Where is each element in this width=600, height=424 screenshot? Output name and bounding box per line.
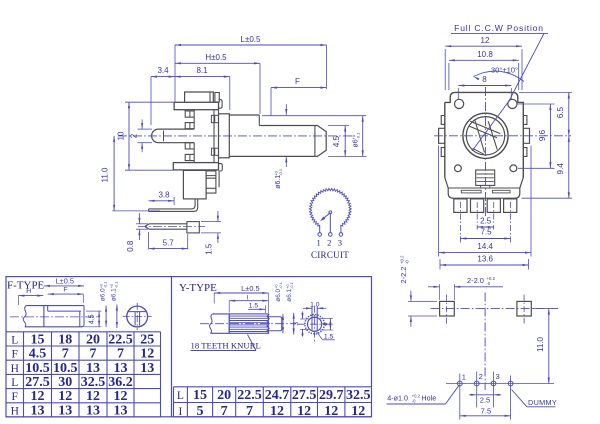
F dim Ø6.0 [105,306,107,327]
svg-text:-0.1: -0.1 [278,168,283,176]
svg-text:ø6.1: ø6.1 [111,288,118,301]
svg-text:10.5: 10.5 [53,361,78,376]
svg-text:F: F [295,77,300,86]
svg-text:2-2.0: 2-2.0 [467,276,484,285]
dim 1.5 pin [201,221,221,223]
dim 9.6 [517,103,555,105]
pcb: pin holes [446,383,554,385]
svg-text:7: 7 [246,404,253,419]
svg-text:-0.1: -0.1 [355,132,360,140]
pcb dim 2.5 holes [469,394,477,396]
pcb dim 7.5 holes [459,394,461,420]
svg-text:-0.1: -0.1 [103,282,107,288]
svg-text:3.4: 3.4 [157,66,169,75]
svg-text:2: 2 [327,238,331,248]
svg-text:2-2.2: 2-2.2 [399,267,408,284]
svg-text:30: 30 [58,375,72,390]
svg-text:9.6: 9.6 [538,129,547,141]
svg-text:L: L [11,334,18,346]
svg-text:13: 13 [86,361,100,376]
svg-text:32.5: 32.5 [346,388,371,403]
Y dim Ø6.0 [282,314,284,333]
svg-text:14.4: 14.4 [477,242,493,251]
svg-text:15: 15 [31,332,45,347]
dim 2.5 terminals [477,226,494,228]
svg-text:6.5: 6.5 [556,106,565,118]
front view: wiper detail [476,170,495,188]
svg-text:5.7: 5.7 [163,239,175,248]
svg-text:-0.1: -0.1 [114,282,118,288]
svg-text:13: 13 [86,403,100,418]
Y-TYPE table [174,387,372,417]
svg-text:7: 7 [117,347,124,362]
svg-text:25: 25 [140,332,154,347]
dim 10 [125,101,174,103]
front view: body outline [445,92,524,198]
svg-text:-0: -0 [487,281,491,286]
svg-text:9.4: 9.4 [556,163,565,175]
svg-text:4.5: 4.5 [89,314,96,324]
svg-text:I: I [179,406,183,418]
svg-text:24.7: 24.7 [265,388,290,403]
circuit symbol: legs and wiper [319,226,321,233]
svg-text:13.6: 13.6 [477,255,493,264]
side view: lower terminal block [183,170,219,199]
svg-text:12: 12 [140,347,154,362]
pcb dim 11.0 [533,308,554,310]
circuit symbol: terminal circles [318,233,322,237]
svg-text:1: 1 [317,238,321,248]
svg-text:F: F [12,349,18,361]
side view: PC pin detail [145,222,199,233]
front view: mounting holes [455,99,464,108]
svg-text:32.5: 32.5 [81,375,106,390]
svg-text:11.0: 11.0 [536,336,545,352]
dim 6.5 [519,91,572,93]
svg-text:F: F [12,391,18,403]
dim 10.8 [448,63,450,90]
front view: terminals [454,199,517,213]
svg-text:22.5: 22.5 [108,332,133,347]
side view: potentiometer body [173,92,222,171]
svg-text:12: 12 [297,404,311,419]
svg-text:4-ø1.0: 4-ø1.0 [387,393,408,402]
svg-text:CIRCUIT: CIRCUIT [311,250,349,260]
Y-type end view [298,306,333,342]
dim L±0.5 [174,45,176,102]
svg-text:36.2: 36.2 [108,375,133,390]
side view: centre line [118,135,352,137]
svg-text:3: 3 [495,372,499,381]
F-type end view [123,303,152,330]
svg-text:Full C.C.W Position: Full C.C.W Position [454,23,544,33]
svg-text:10.8: 10.8 [477,50,493,59]
side view: bushing and shaft [219,114,327,158]
dim 5.7 [148,232,150,250]
side view: actuator pin [152,129,195,143]
svg-text:3.8: 3.8 [158,191,170,200]
pcb dim 2-2.2 [399,255,409,284]
svg-text:DUMMY: DUMMY [528,398,557,407]
Y dim Ø6.1 [293,313,295,335]
svg-text:15: 15 [193,388,207,403]
front view: rotor circles [463,113,508,158]
pcb: centre lines [431,308,558,310]
pcb: square holes [440,301,455,316]
dim F [270,88,272,116]
svg-text:18: 18 [58,332,72,347]
svg-text:Hole: Hole [421,393,436,402]
svg-text:2.5: 2.5 [480,217,492,226]
dim 13.6 [439,259,441,270]
svg-text:ø6.1: ø6.1 [286,288,293,301]
svg-text:13: 13 [31,403,45,418]
pcb: 4-hole label [387,393,436,403]
svg-text:1.0: 1.0 [310,301,320,308]
dim Ø6 [362,116,364,157]
svg-text:ø6.0: ø6.0 [100,288,107,301]
svg-text:1: 1 [462,373,466,382]
svg-text:-0.1: -0.1 [290,282,294,288]
F-type centre line [10,316,100,318]
svg-text:L: L [177,390,184,402]
F dim Ø6.1 [116,305,118,329]
svg-text:12: 12 [481,36,490,45]
svg-text:8.1: 8.1 [196,66,208,75]
svg-text:2.5: 2.5 [480,396,491,405]
svg-text:13: 13 [140,361,154,376]
svg-text:H: H [11,405,19,417]
svg-text:4.5: 4.5 [29,347,47,362]
svg-text:Y-TYPE: Y-TYPE [179,282,217,294]
dim 8.1 [229,77,231,110]
svg-text:7: 7 [221,404,228,419]
Y-type shaft drawing [209,314,281,333]
svg-text:0.8: 0.8 [126,240,135,252]
svg-text:13: 13 [114,361,128,376]
svg-text:29.7: 29.7 [319,388,344,403]
F-TYPE table [6,332,161,417]
svg-text:5: 5 [197,404,204,419]
svg-text:11.0: 11.0 [100,167,109,183]
svg-text:18 TEETH KNURL: 18 TEETH KNURL [191,341,261,351]
dim 0.8 [136,223,148,225]
Y-type centre line [200,323,296,325]
svg-text:ø6.0: ø6.0 [275,288,282,301]
svg-text:1.5: 1.5 [205,243,214,255]
svg-text:7.5: 7.5 [481,406,492,415]
F-TYPE / Y-TYPE box borders [6,277,372,417]
svg-text:10: 10 [117,131,126,140]
svg-text:4.5: 4.5 [332,135,341,147]
dim 11.0 [112,210,160,212]
front view: rotor slot [469,121,500,155]
F-type shaft drawing [23,306,84,327]
svg-text:10.5: 10.5 [25,361,50,376]
svg-text:3: 3 [293,322,300,326]
svg-text:F: F [63,287,67,294]
svg-text:12: 12 [58,389,72,404]
svg-text:2: 2 [479,372,483,381]
svg-text:12: 12 [31,389,45,404]
front view: side tabs [441,116,445,125]
front view: centre lines [485,87,487,218]
svg-text:L: L [11,377,18,389]
side view: bent terminal wire [149,199,198,212]
dim 7.5 terminals [460,238,510,240]
svg-text:12: 12 [270,404,284,419]
svg-text:20: 20 [217,388,231,403]
Y end dim 4 [320,317,333,319]
svg-text:22.5: 22.5 [237,388,262,403]
svg-text:13: 13 [114,403,128,418]
svg-text:12: 12 [324,404,338,419]
svg-text:3: 3 [338,238,342,248]
svg-text:7: 7 [62,347,69,362]
svg-text:H: H [26,288,31,295]
dim Ø6.1 [285,104,287,115]
svg-text:ø6.1: ø6.1 [275,175,282,189]
dim 12 [444,49,446,90]
svg-text:7.5: 7.5 [480,228,492,237]
dim 4.5 shaft flat [328,125,349,127]
svg-text:H±0.5: H±0.5 [205,53,227,62]
dim 3.4 [150,77,152,125]
dim 2 [138,128,153,130]
svg-text:27.5: 27.5 [25,375,50,390]
svg-text:13: 13 [58,403,72,418]
svg-text:7: 7 [90,347,97,362]
svg-text:12: 12 [86,389,100,404]
circuit symbol: resistive element ring [309,188,351,226]
dim 8 [457,88,459,99]
terminal centre lines [459,202,461,244]
pc pin centre line [138,226,205,228]
svg-text:2: 2 [129,133,138,138]
front view: side wings [439,128,445,143]
dim H±0.5 [259,63,261,114]
svg-text:L±0.5: L±0.5 [241,284,259,293]
svg-text:8: 8 [482,75,487,84]
dim 9.4 [522,197,573,199]
svg-text:L±0.5: L±0.5 [56,276,74,285]
dim 14.4 [438,146,440,257]
svg-text:12: 12 [114,389,128,404]
svg-text:H: H [11,363,19,375]
svg-text:30°±10°: 30°±10° [491,66,518,75]
pcb dim 2-2.0 [467,276,496,286]
svg-text:1.5: 1.5 [249,302,259,309]
dim 3.8 [173,197,175,205]
svg-text:-0: -0 [404,260,409,264]
svg-text:27.5: 27.5 [292,388,317,403]
F dim 4.5 [86,310,102,312]
svg-text:L±0.5: L±0.5 [241,35,262,44]
svg-text:20: 20 [86,332,100,347]
svg-text:12: 12 [351,404,365,419]
svg-text:-0.1: -0.1 [279,282,283,288]
